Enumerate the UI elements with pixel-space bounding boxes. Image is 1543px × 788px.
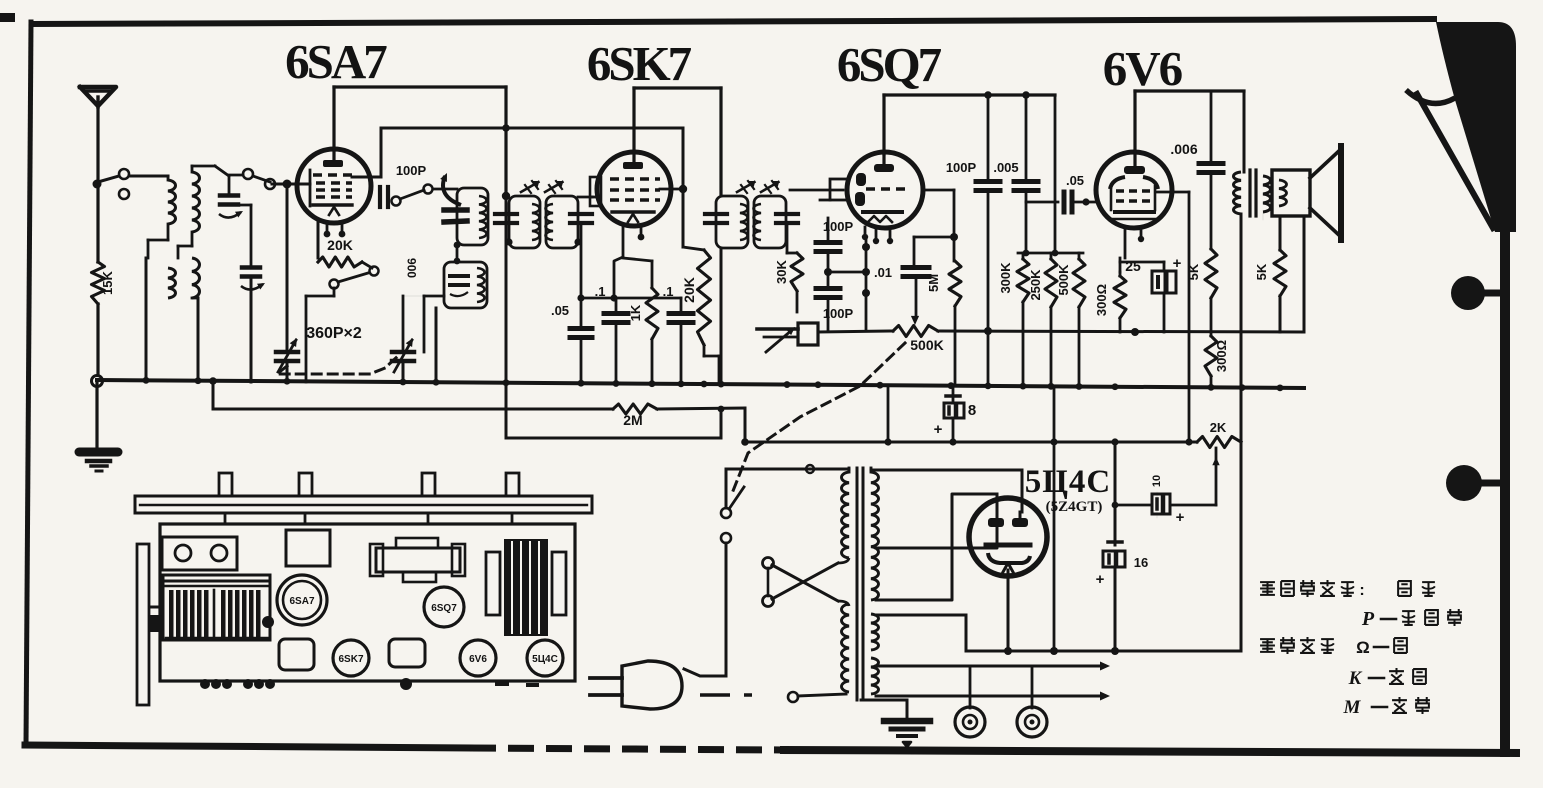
wire bracket right drop bbox=[1054, 95, 1057, 253]
AVC line 2M bbox=[212, 382, 215, 409]
coil IF1 primary bbox=[532, 204, 540, 240]
svg-text:16: 16 bbox=[1134, 555, 1148, 570]
phono jack bbox=[798, 323, 818, 345]
wire 6SK7 screen drop bbox=[682, 128, 685, 247]
tube 6SK7 pins bbox=[622, 226, 625, 257]
wire switch to plug bbox=[725, 543, 728, 676]
power switch contact 2 bbox=[721, 533, 731, 543]
switch contact C2 bbox=[330, 280, 339, 289]
resistor 500K pot bbox=[893, 326, 938, 337]
wire 6SA7 plate up bbox=[332, 87, 335, 150]
tube 6SA7 top cap bbox=[323, 160, 343, 167]
svg-text::: : bbox=[1359, 582, 1364, 599]
output transformer secondary bbox=[1263, 176, 1271, 212]
svg-text:(5Z4GT): (5Z4GT) bbox=[1046, 499, 1103, 515]
capacitor .1 b bbox=[680, 298, 683, 310]
phase cross X bbox=[772, 565, 838, 601]
capacitor .05 coupling bbox=[1062, 192, 1067, 212]
tube 6V6 grid cage bbox=[1110, 186, 1113, 210]
switch contact B2 bbox=[265, 179, 275, 189]
dial post 2 bbox=[299, 473, 312, 496]
wire bias to rail bbox=[1119, 318, 1122, 332]
svg-text:.006: .006 bbox=[1170, 141, 1197, 157]
tube 6SA7 grids bbox=[309, 170, 312, 206]
wire B+ bracket 6SQ7 bbox=[884, 93, 1055, 96]
wire speaker frame down bbox=[1303, 216, 1306, 332]
svg-text:500K: 500K bbox=[910, 337, 943, 353]
switch contact B1 bbox=[243, 169, 253, 179]
tube socket 6SK7 bbox=[333, 640, 369, 676]
wire IF2 secondary down bbox=[786, 223, 789, 253]
wire 300ohm b bus bbox=[1210, 376, 1213, 387]
capacitor IF2 secondary bbox=[776, 212, 798, 216]
node 6SA7 grid bbox=[283, 180, 292, 189]
legend line1 capacitor unit bbox=[1260, 582, 1275, 595]
page border bottom dashed bbox=[470, 748, 784, 750]
svg-text:.05: .05 bbox=[551, 303, 569, 318]
wire switch feed bbox=[725, 469, 728, 508]
AC plug bbox=[590, 676, 622, 680]
svg-text:300Ω: 300Ω bbox=[1214, 340, 1229, 372]
svg-text:M: M bbox=[1343, 697, 1362, 718]
wire trimmer2 bbox=[250, 205, 253, 267]
tube 6V6 envelope bbox=[1096, 152, 1172, 228]
wire .005 to grid bbox=[1026, 201, 1058, 204]
tube 6V6 cathode bbox=[1115, 210, 1154, 214]
wire 6SA7 grid line bbox=[272, 183, 298, 186]
svg-text:500K: 500K bbox=[1056, 264, 1071, 296]
resistor 5K a bbox=[1205, 249, 1217, 298]
wire switch to coil bbox=[129, 175, 168, 178]
AC line dash bbox=[700, 693, 752, 696]
coil L1 secondary bbox=[168, 268, 176, 298]
wire osc box lower to bus bbox=[435, 308, 438, 382]
wire screen line bbox=[381, 127, 683, 130]
capacitor 100P det lower bbox=[827, 254, 830, 286]
page border right thick bbox=[1500, 222, 1510, 752]
node antenna tap bbox=[93, 180, 102, 189]
wire 360Pb up bbox=[402, 296, 405, 350]
tuning gang assembly bbox=[163, 575, 270, 640]
wire HV top to plate bbox=[871, 469, 1022, 472]
tube 5Z4 envelope bbox=[969, 498, 1047, 576]
wire diode link bbox=[828, 271, 866, 274]
wire B plus bottom bbox=[876, 614, 966, 617]
svg-text:15K: 15K bbox=[100, 270, 115, 294]
wire IF2 grid out bbox=[790, 189, 843, 192]
chassis grommets bbox=[200, 679, 210, 689]
page border top bbox=[32, 19, 1434, 24]
phase cross contact 1 bbox=[763, 558, 774, 569]
tube 6SQ7 envelope bbox=[847, 152, 923, 228]
coil osc lower bbox=[477, 268, 485, 302]
svg-text:5K: 5K bbox=[1254, 263, 1269, 280]
capacitor IF2 primary bbox=[705, 212, 727, 216]
wire 16uF column bbox=[1114, 442, 1117, 545]
coil L1 primary bbox=[168, 180, 176, 224]
wire antenna to bus bbox=[96, 304, 99, 381]
switch contact C1 bbox=[370, 267, 379, 276]
power switch contact 1 bbox=[721, 508, 731, 518]
electrolytic 25uF bbox=[1152, 271, 1176, 293]
wire 360Pb to bus bbox=[402, 361, 405, 382]
heater line 1 bbox=[876, 665, 1100, 668]
wire 6SK7 cathode bend bbox=[614, 257, 623, 298]
chassis box bbox=[160, 524, 575, 681]
legend line3 resistor unit bbox=[1260, 639, 1275, 652]
wire 500K bus bbox=[1078, 307, 1081, 384]
svg-text:5Ц4C: 5Ц4C bbox=[532, 654, 558, 665]
svg-text:+: + bbox=[1176, 509, 1185, 526]
terminal strip two holes bbox=[162, 537, 237, 570]
wire osc to box bbox=[434, 188, 457, 191]
svg-text:6SQ7: 6SQ7 bbox=[431, 603, 457, 614]
wire level line right bbox=[938, 331, 1304, 332]
resistor 300ohm 6V6 bbox=[1114, 276, 1126, 318]
ground bus bbox=[97, 380, 1304, 388]
tube 6SK7 grids bbox=[610, 177, 660, 180]
coil IF1 secondary bbox=[546, 204, 554, 240]
speaker cone bbox=[1310, 150, 1340, 236]
tube 6SK7 plate arm bbox=[660, 188, 679, 191]
capacitor osc grid bbox=[378, 187, 382, 207]
node antenna bus ring bbox=[92, 376, 103, 387]
wire 6SQ7 cathode drop bbox=[887, 388, 890, 442]
svg-text:8: 8 bbox=[968, 402, 976, 419]
ground symbol main bbox=[79, 448, 118, 457]
wire 6SA7 screen riser bbox=[380, 128, 383, 177]
svg-text:2M: 2M bbox=[623, 412, 642, 428]
svg-text:.1: .1 bbox=[663, 284, 674, 299]
svg-text:K: K bbox=[1348, 668, 1363, 689]
filter can 2 bbox=[389, 639, 425, 667]
wire IF1 secondary down bbox=[580, 223, 583, 326]
resistor 30K bbox=[791, 253, 803, 291]
gang dashed link bbox=[277, 356, 398, 374]
svg-text:.1: .1 bbox=[595, 284, 606, 299]
wire 5K a down bbox=[1210, 298, 1213, 336]
filter can 1 bbox=[279, 639, 314, 670]
switch contact A1 bbox=[119, 169, 129, 179]
svg-text:5K: 5K bbox=[1186, 263, 1201, 280]
page corner black fold bbox=[1436, 22, 1516, 232]
svg-text:250K: 250K bbox=[1028, 269, 1043, 301]
wire IF1 grid out bbox=[578, 196, 592, 199]
wire diode vertical bbox=[865, 236, 868, 331]
tube 5Z4 cathode bbox=[986, 543, 1030, 548]
resistor 300K bbox=[1022, 253, 1025, 259]
trimmer capacitor ant bbox=[220, 193, 238, 198]
wire B+ bracket 6V6 bbox=[1135, 89, 1244, 92]
print mark top-left edge bbox=[0, 13, 15, 22]
resistor 250K bbox=[1050, 253, 1053, 259]
electrolytic 8uF bbox=[952, 386, 955, 403]
antenna bbox=[80, 87, 116, 106]
wire B plus line bbox=[745, 441, 1197, 444]
coil osc upper bbox=[479, 196, 487, 238]
node osc feed bbox=[502, 192, 510, 200]
svg-text:10: 10 bbox=[1151, 475, 1163, 487]
resistor 5K b bbox=[1274, 250, 1286, 296]
wire tuning cap1 drop bbox=[286, 184, 289, 350]
resistor 2M bbox=[613, 404, 657, 414]
tube 6SA7 envelope bbox=[297, 149, 371, 223]
tube 6V6 top cap bbox=[1124, 166, 1145, 174]
wire 6V6 plate up bbox=[1133, 91, 1136, 153]
trimmer in box lower bbox=[450, 274, 468, 278]
capacitor IF1 primary bbox=[495, 212, 517, 216]
tube 6SQ7 grid box bbox=[830, 179, 848, 200]
tube 6SK7 grid box bbox=[590, 177, 601, 206]
wire osc box lower left bbox=[424, 295, 444, 298]
output transformer core bbox=[1248, 170, 1251, 216]
resistor 20K 6SK7 bbox=[698, 250, 711, 345]
osc coil box upper bbox=[457, 188, 488, 245]
tube 6SA7 grid arm bbox=[298, 183, 310, 186]
coil IF2 primary bbox=[740, 204, 748, 240]
wire 30K down bbox=[796, 291, 799, 312]
capacitor .01 bbox=[903, 265, 929, 270]
AC line node bbox=[788, 692, 798, 702]
power transformer filament windings bbox=[871, 614, 879, 650]
osc contact 2 bbox=[424, 185, 433, 194]
wire L2 mid link bbox=[191, 232, 194, 246]
heater line 2 bbox=[876, 695, 1100, 698]
wire resistor top rail bbox=[1018, 252, 1083, 255]
tube 6SQ7 pins bbox=[864, 227, 867, 236]
knob upper bbox=[1451, 276, 1485, 310]
dial post 4 bbox=[506, 473, 519, 496]
wire OPT top bbox=[1243, 91, 1246, 172]
wire 250K bus bbox=[1050, 307, 1053, 384]
IF2 box left bbox=[716, 196, 748, 248]
capacitor .006 bbox=[1210, 91, 1213, 160]
wire switch C down bbox=[333, 288, 336, 296]
tube 6SQ7 grid dash bbox=[866, 187, 905, 190]
svg-text:5M: 5M bbox=[926, 274, 941, 292]
switch lever C bbox=[338, 273, 368, 282]
svg-text:6SA7: 6SA7 bbox=[289, 596, 314, 607]
coil L2 secondary bbox=[192, 258, 200, 298]
dial post 1 bbox=[219, 473, 232, 496]
wire HV bottom to plate bbox=[876, 494, 997, 600]
resistor 2K bbox=[1197, 437, 1241, 448]
wire 6SQ7 anode right bbox=[923, 189, 954, 192]
wire .01 link bbox=[914, 236, 954, 239]
wire 20K right bbox=[362, 262, 372, 268]
page border bottom right solid bbox=[784, 750, 1516, 753]
wire transformer CT ground bbox=[861, 699, 907, 702]
svg-text:006: 006 bbox=[405, 258, 419, 278]
svg-text:6V6: 6V6 bbox=[469, 654, 487, 665]
variable capacitor 360P a bbox=[276, 350, 298, 355]
variable capacitor 360P b bbox=[392, 350, 414, 355]
resistor 20K 6SA7 bbox=[318, 257, 362, 267]
dial post 3 bbox=[422, 473, 435, 496]
wire .01 to pot bbox=[915, 279, 918, 316]
trimmer in box upper bbox=[444, 207, 467, 213]
resistor 1K bbox=[651, 261, 654, 288]
IF1 box left bbox=[509, 196, 540, 248]
electrolytic 16uF bbox=[1108, 540, 1122, 544]
svg-text:6SK7: 6SK7 bbox=[587, 36, 692, 91]
tube socket 6SQ7 bbox=[424, 587, 464, 627]
wire 20K to bus bbox=[703, 345, 706, 356]
dial side plate bbox=[137, 544, 149, 705]
wire 360Pa to bus bbox=[286, 361, 289, 382]
wire 6SQ7 plate up bbox=[882, 95, 885, 154]
wire B+ bracket 6SA7 bbox=[334, 85, 506, 88]
wire antenna down bbox=[96, 106, 99, 262]
svg-text:20K: 20K bbox=[327, 237, 353, 253]
power transformer primary lower bbox=[842, 604, 850, 692]
tube 6V6 beam plates bbox=[1110, 177, 1125, 189]
capacitor IF1 secondary bbox=[570, 212, 592, 216]
gang dashed link volume bbox=[731, 343, 905, 496]
wire 5Z4 cathode down bbox=[1007, 570, 1010, 651]
svg-text:100P: 100P bbox=[823, 306, 854, 321]
power transformer core bbox=[856, 468, 859, 700]
power transformer primary bbox=[842, 472, 850, 558]
capacitor 100P det upper bbox=[827, 218, 830, 240]
svg-text:360P×2: 360P×2 bbox=[306, 325, 362, 342]
coil L2 primary bbox=[192, 172, 200, 232]
tube 6SK7 envelope bbox=[597, 152, 671, 226]
svg-text:2K: 2K bbox=[1210, 420, 1227, 435]
wire det level line bbox=[818, 331, 893, 332]
svg-text:100P: 100P bbox=[946, 160, 977, 175]
variable arrow osc bbox=[443, 176, 461, 205]
wire 6V6 cathode split bbox=[1119, 258, 1122, 272]
wire L1 frame to bus bbox=[145, 258, 148, 382]
tube 6SQ7 cathode bbox=[863, 210, 902, 214]
tube 6SA7 plate arm bbox=[352, 176, 380, 179]
wire cap10 link bbox=[1115, 504, 1152, 507]
tube 6SQ7 diode pads bbox=[856, 173, 866, 186]
pilot lamp 2 bbox=[1031, 666, 1034, 708]
switch contact A2 bbox=[119, 189, 129, 199]
trimmer capacitor ant2 bbox=[242, 265, 260, 270]
wire L2 top bbox=[191, 166, 194, 172]
osc contact 1 bbox=[392, 197, 401, 206]
wire 2M right bbox=[657, 408, 745, 409]
osc coil box lower bbox=[444, 262, 487, 308]
dial bar bbox=[135, 496, 592, 513]
wire trimmer top bbox=[228, 176, 231, 195]
wire 6SK7 plate up bbox=[632, 88, 635, 152]
svg-text:+: + bbox=[1173, 255, 1182, 272]
wire primary top bbox=[808, 468, 849, 471]
IF can chassis 1 bbox=[286, 530, 330, 566]
svg-text:30K: 30K bbox=[774, 259, 789, 283]
electrolytic 10uF bbox=[1156, 492, 1158, 518]
wire tap to switch bbox=[98, 176, 119, 182]
knob lower bbox=[1446, 465, 1482, 501]
capacitor .1 a bbox=[615, 298, 618, 310]
tube socket 6SA7 bbox=[277, 575, 327, 625]
tube 6SQ7 top cap bbox=[874, 164, 894, 172]
power switch lever bbox=[729, 487, 744, 509]
wire 6SK7 grid bbox=[592, 196, 598, 199]
svg-text:.05: .05 bbox=[1066, 173, 1084, 188]
wire ground lead bbox=[95, 381, 98, 447]
wire OPT primary down bbox=[1240, 214, 1243, 442]
svg-text:300Ω: 300Ω bbox=[1094, 284, 1109, 316]
svg-text:100P: 100P bbox=[396, 163, 427, 178]
svg-text:Ω: Ω bbox=[1356, 638, 1370, 657]
IF can chassis 2 bbox=[376, 548, 460, 572]
svg-text:20K: 20K bbox=[681, 277, 697, 303]
resistor 5M bbox=[949, 261, 961, 306]
osc lever bbox=[400, 190, 424, 199]
page corner fold edge line bbox=[1417, 94, 1493, 228]
wire .05 to 6V6 grid bbox=[1074, 201, 1097, 204]
phase cross contact 2 bbox=[763, 596, 774, 607]
page corner crease arc bbox=[1406, 90, 1455, 103]
IF2 box right bbox=[754, 196, 786, 248]
wire 5M to bus bbox=[954, 306, 957, 384]
capacitor .05 6SK7 bbox=[570, 326, 592, 331]
svg-text:.01: .01 bbox=[874, 265, 892, 280]
svg-text:25: 25 bbox=[1125, 258, 1141, 274]
tube socket 6V6 bbox=[460, 640, 496, 676]
wire B+ bracket 6SK7 bbox=[634, 86, 721, 89]
capacitor 100P coupling bbox=[987, 95, 990, 178]
ground symbol PSU bbox=[884, 718, 930, 725]
svg-text:6SQ7: 6SQ7 bbox=[837, 37, 942, 92]
resistor 500K grid bbox=[1078, 253, 1081, 259]
wire OPT secondary to 5K bbox=[1262, 212, 1264, 220]
speaker frame box bbox=[1272, 170, 1310, 216]
tube 6SK7 top cap bbox=[623, 162, 643, 169]
tube 5Z4 plates bbox=[988, 518, 1004, 527]
svg-text:P: P bbox=[1361, 608, 1375, 630]
svg-text:6SA7: 6SA7 bbox=[285, 34, 387, 89]
speaker voice coil bbox=[1279, 180, 1287, 206]
resistor 300ohm b bbox=[1205, 336, 1217, 376]
AVC lower loop bbox=[505, 383, 508, 438]
tube socket 5Z4C bbox=[527, 640, 563, 676]
pilot lamp 1 bbox=[969, 666, 972, 708]
svg-text:300K: 300K bbox=[998, 262, 1013, 294]
svg-text:6SK7: 6SK7 bbox=[338, 654, 363, 665]
tube 6SA7 pins bbox=[317, 221, 320, 258]
page border left bbox=[26, 22, 31, 744]
wire L2 bottom to bus bbox=[197, 298, 200, 382]
svg-text:.005: .005 bbox=[993, 160, 1018, 175]
capacitor .005 bbox=[1025, 95, 1028, 178]
tube 6V6 pins bbox=[1124, 228, 1127, 258]
svg-text:5Ц4C: 5Ц4C bbox=[1025, 464, 1112, 500]
wire osc boxes link bbox=[456, 244, 459, 262]
resistor 15K bbox=[92, 262, 105, 304]
wire IF1 column bbox=[505, 197, 508, 382]
wire 2K to cap10 bbox=[1215, 448, 1218, 505]
wire 1054 drop bbox=[1053, 388, 1056, 442]
IF1 box right bbox=[546, 196, 578, 248]
node IF1 bottoms bbox=[505, 238, 512, 245]
svg-text:+: + bbox=[1096, 571, 1105, 588]
IF2 adjust arrows bbox=[737, 182, 754, 192]
power transformer HV secondary bbox=[871, 472, 879, 600]
IF1 adjust arrows bbox=[521, 182, 538, 192]
wire 300K bus bbox=[1022, 302, 1025, 384]
svg-text:1K: 1K bbox=[628, 304, 643, 321]
power transformer chassis bbox=[486, 552, 500, 615]
wire IF2 column to bus bbox=[720, 248, 723, 383]
output transformer primary bbox=[1234, 172, 1242, 214]
svg-text:+: + bbox=[934, 421, 943, 438]
